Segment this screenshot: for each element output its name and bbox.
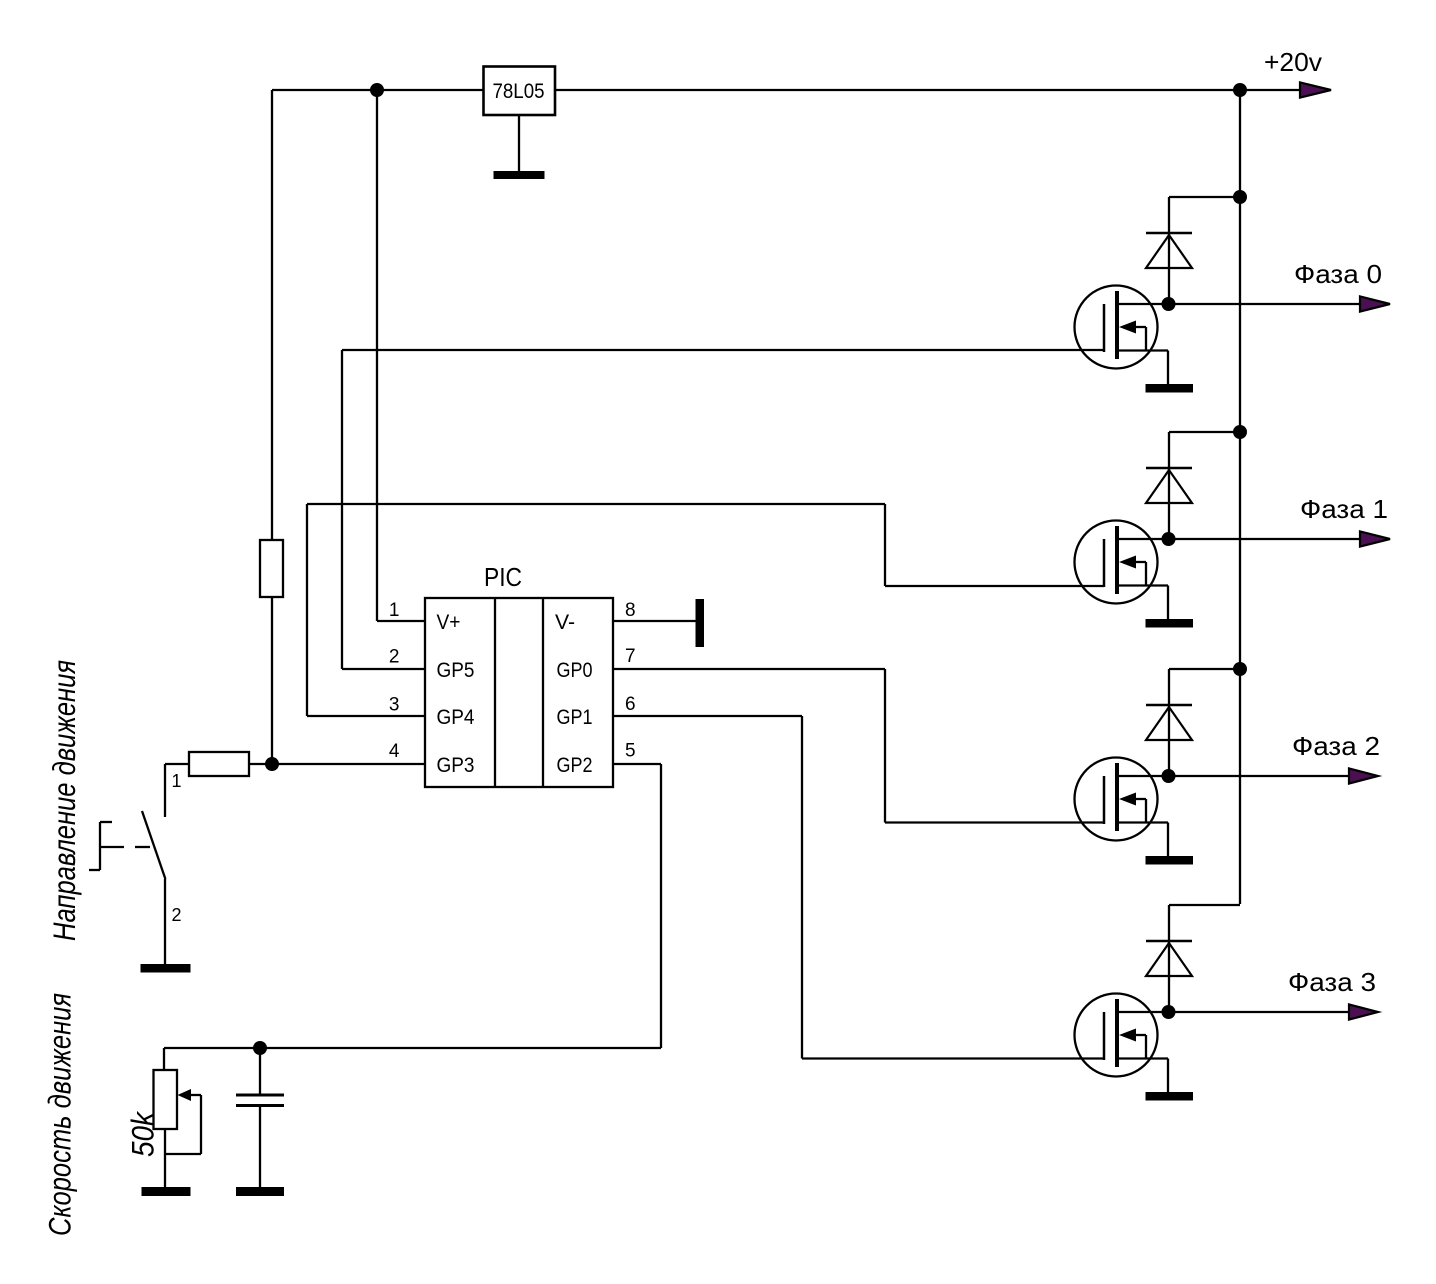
svg-text:5: 5: [625, 741, 636, 762]
svg-text:78L05: 78L05: [493, 80, 545, 103]
svg-text:GP4: GP4: [437, 706, 475, 729]
svg-text:7: 7: [625, 646, 636, 667]
svg-text:1: 1: [389, 600, 400, 621]
svg-text:8: 8: [625, 600, 636, 621]
svg-text:GP3: GP3: [437, 754, 475, 777]
svg-text:GP2: GP2: [557, 754, 593, 777]
svg-text:4: 4: [389, 741, 400, 762]
svg-text:6: 6: [625, 694, 636, 715]
svg-text:2: 2: [172, 905, 182, 925]
svg-text:GP5: GP5: [437, 659, 475, 682]
svg-text:Фаза 0: Фаза 0: [1294, 259, 1382, 289]
svg-text:2: 2: [389, 647, 400, 668]
svg-text:+20v: +20v: [1264, 47, 1322, 77]
svg-text:GP0: GP0: [557, 659, 593, 682]
svg-text:V+: V+: [437, 611, 461, 634]
svg-text:50k: 50k: [125, 1110, 161, 1157]
svg-text:Фаза 2: Фаза 2: [1292, 731, 1380, 761]
svg-text:V-: V-: [555, 611, 575, 634]
svg-text:1: 1: [172, 771, 182, 791]
svg-text:PIC: PIC: [484, 562, 522, 592]
svg-text:GP1: GP1: [557, 706, 593, 729]
svg-text:Направление движения: Направление движения: [46, 660, 82, 941]
svg-text:Фаза 3: Фаза 3: [1288, 967, 1376, 997]
svg-text:Фаза 1: Фаза 1: [1300, 494, 1388, 524]
svg-text:Скорость движения: Скорость движения: [42, 993, 78, 1236]
svg-text:3: 3: [389, 695, 400, 716]
